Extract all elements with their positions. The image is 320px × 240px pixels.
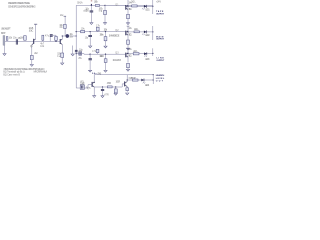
svg-text:SOME SPEC LINE P ENGINEERING: SOME SPEC LINE P ENGINEERING — [8, 6, 36, 8]
svg-text:HEADPH: HEADPH — [156, 74, 165, 77]
svg-text:100R: 100R — [116, 81, 121, 83]
svg-text:1%: 1% — [59, 27, 62, 29]
svg-text:+24 V: +24 V — [156, 2, 161, 4]
svg-text:1N4148 DIODE: 1N4148 DIODE — [109, 35, 120, 37]
svg-text:10 kC: 10 kC — [29, 31, 34, 33]
svg-text:17k 2w: 17k 2w — [100, 35, 104, 37]
svg-text:LED3: LED3 — [145, 59, 150, 61]
svg-text:INPUT: INPUT — [1, 33, 6, 35]
svg-text:24v: 24v — [92, 72, 97, 75]
svg-text:1N4148 B: 1N4148 B — [113, 60, 122, 62]
svg-text:PREAMP BOOSTER 4 CH SAME: PREAMP BOOSTER 4 CH SAME — [8, 2, 30, 5]
svg-text:LED1: LED1 — [145, 9, 150, 11]
svg-text:1M: 1M — [20, 37, 23, 39]
svg-text:MR CR R IN MLA: MR CR R IN MLA — [34, 71, 48, 74]
svg-text:2k2 L: 2k2 L — [131, 2, 136, 4]
svg-text:1w: 1w — [57, 56, 61, 58]
svg-text:100k 1%: 100k 1% — [99, 56, 104, 58]
svg-text:LINE IN LEFT: LINE IN LEFT — [1, 28, 11, 30]
svg-text:47R: 47R — [104, 95, 109, 97]
svg-text:LED2: LED2 — [145, 35, 150, 37]
svg-text:LEVEL: LEVEL — [156, 78, 165, 80]
svg-text:BQ Case resis B: BQ Case resis B — [3, 73, 20, 76]
svg-text:OUTPUT: OUTPUT — [156, 13, 164, 15]
svg-text:10kB: 10kB — [80, 84, 85, 86]
svg-text:OUT: OUT — [156, 81, 164, 83]
svg-text:470R: 470R — [107, 83, 112, 85]
svg-text:2k2 L: 2k2 L — [133, 51, 138, 53]
svg-text:BQ Transistor ply Bc Lt: BQ Transistor ply Bc Lt — [3, 71, 25, 74]
svg-text:2k2 L: 2k2 L — [134, 29, 139, 31]
svg-text:LED4: LED4 — [145, 85, 150, 87]
svg-text:CH 1 A: CH 1 A — [77, 2, 83, 5]
svg-text:OUTPUT: OUTPUT — [156, 60, 164, 62]
svg-text:OUTPUT: OUTPUT — [156, 39, 164, 41]
